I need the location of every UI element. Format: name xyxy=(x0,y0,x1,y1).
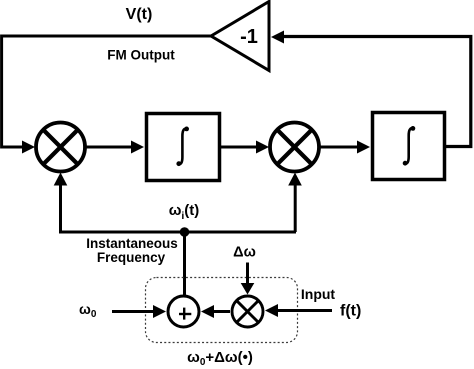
svg-text:Frequency: Frequency xyxy=(97,250,166,265)
svg-text:Δω: Δω xyxy=(233,245,256,261)
svg-text:-1: -1 xyxy=(240,26,258,48)
svg-text:FM Output: FM Output xyxy=(107,48,175,63)
svg-text:ω0+Δω(•): ω0+Δω(•) xyxy=(187,349,253,368)
svg-text:Input: Input xyxy=(301,286,336,302)
svg-text:Instantaneous: Instantaneous xyxy=(86,236,178,251)
svg-text:f(t): f(t) xyxy=(340,303,361,320)
svg-text:V(t): V(t) xyxy=(126,6,153,23)
